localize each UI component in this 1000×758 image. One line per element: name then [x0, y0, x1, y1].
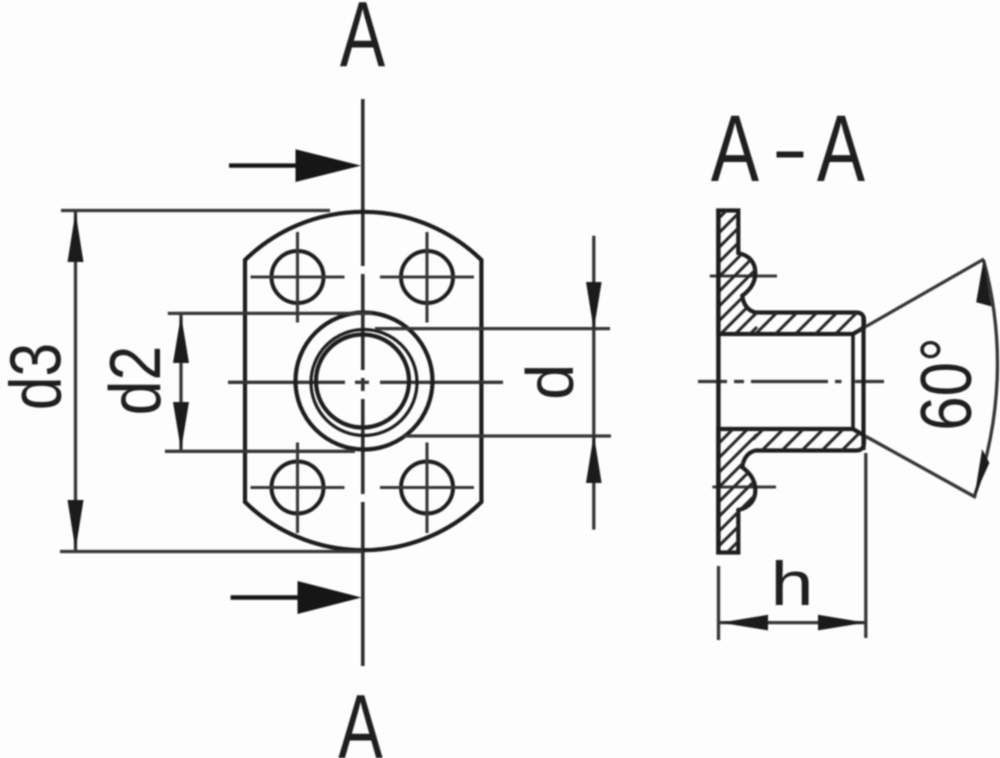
svg-text:d2: d2: [96, 346, 176, 416]
svg-text:A: A: [817, 95, 866, 201]
dimension h: extension line right: [864, 453, 867, 638]
hole top-left circle: [272, 251, 324, 303]
dimension d2: extension line bottom: [165, 450, 355, 453]
dimension h: dimension line: [719, 621, 866, 624]
hatching lower barrel wall: [753, 292, 880, 559]
hole bottom-left: [251, 443, 345, 534]
flange front face line: [716, 209, 720, 555]
hole bottom-left horizontal centerline: [251, 486, 345, 489]
dimension d3: extension line top: [61, 209, 330, 212]
dimension d: extension line top: [375, 327, 610, 330]
hole top-left: [251, 232, 345, 323]
dimension d2: arrowhead up: [173, 315, 189, 363]
dimension d: arrowhead down (above): [586, 282, 602, 330]
hole bottom-right circle: [401, 462, 453, 514]
svg-text:A: A: [711, 95, 760, 201]
dimension d2: dimension line: [179, 314, 182, 451]
dimension h: extension line left: [717, 566, 720, 640]
60 deg arc arrowhead top: [976, 260, 991, 307]
hole top-right vertical centerline: [425, 232, 428, 323]
countersink edge line: [851, 335, 855, 428]
section arrow bottom: [231, 581, 362, 614]
hole top-right horizontal centerline: [380, 275, 474, 278]
barrel end face line: [861, 316, 865, 450]
hole top-right: [380, 232, 474, 323]
hatching upper barrel wall: [753, 190, 880, 437]
dimension d3: arrowhead down: [68, 500, 84, 550]
horizontal centerline of part (dash-dot): [228, 381, 503, 384]
section metal outline lower: [718, 429, 864, 553]
hole bottom-left vertical centerline: [296, 443, 299, 534]
hole bottom-right: [380, 443, 474, 534]
central threaded hole: bore circle: [316, 335, 409, 428]
section arrow top: [229, 149, 361, 182]
central threaded hole: thread circle: [311, 330, 417, 436]
hole top-left horizontal centerline: [251, 275, 345, 278]
dimension h: arrowhead right: [818, 615, 866, 631]
flange outline (obround with arcs): [245, 212, 481, 550]
central threaded hole: outer circle: [296, 313, 433, 450]
dimension d2: arrowhead down: [173, 402, 189, 450]
hole bottom-right vertical centerline: [425, 443, 428, 534]
hole top-right circle: [401, 251, 453, 303]
hole bottom-left circle: [272, 462, 324, 514]
weld projection centerline lower: [712, 485, 776, 488]
svg-text:A: A: [338, 676, 384, 758]
hole bottom-right horizontal centerline: [380, 486, 474, 489]
svg-text:h: h: [770, 548, 813, 618]
svg-text:A: A: [340, 0, 386, 87]
svg-text:d3: d3: [0, 343, 77, 410]
dimension d2: extension line top: [168, 312, 372, 315]
svg-text:d: d: [512, 364, 587, 400]
dimension h: arrowhead left: [721, 615, 769, 631]
svg-text:60°: 60°: [907, 337, 987, 431]
dimension d: dimension line: [592, 236, 595, 530]
dimension d3: dimension line: [74, 211, 77, 551]
section axis centerline (dash-dot): [698, 380, 884, 383]
hatching lower flange: [700, 405, 757, 609]
60 deg chamfer extension upper: [866, 259, 984, 327]
hole top-left vertical centerline: [296, 232, 299, 323]
60 deg dimension arc: [975, 260, 998, 496]
section cutting centerline (vertical, dash-dot): [361, 99, 365, 666]
weld projection centerline upper: [710, 274, 777, 277]
dimension d: arrowhead up (below): [586, 435, 602, 484]
dimension d3: extension line bottom: [60, 550, 363, 553]
section metal outline upper: [718, 211, 864, 335]
60 deg arc arrowhead bottom: [975, 449, 990, 496]
dimension d3: arrowhead up: [68, 212, 84, 262]
dimension d: extension line bottom: [403, 434, 611, 437]
60 deg chamfer extension lower: [866, 437, 976, 498]
hatching upper flange: [700, 180, 757, 384]
